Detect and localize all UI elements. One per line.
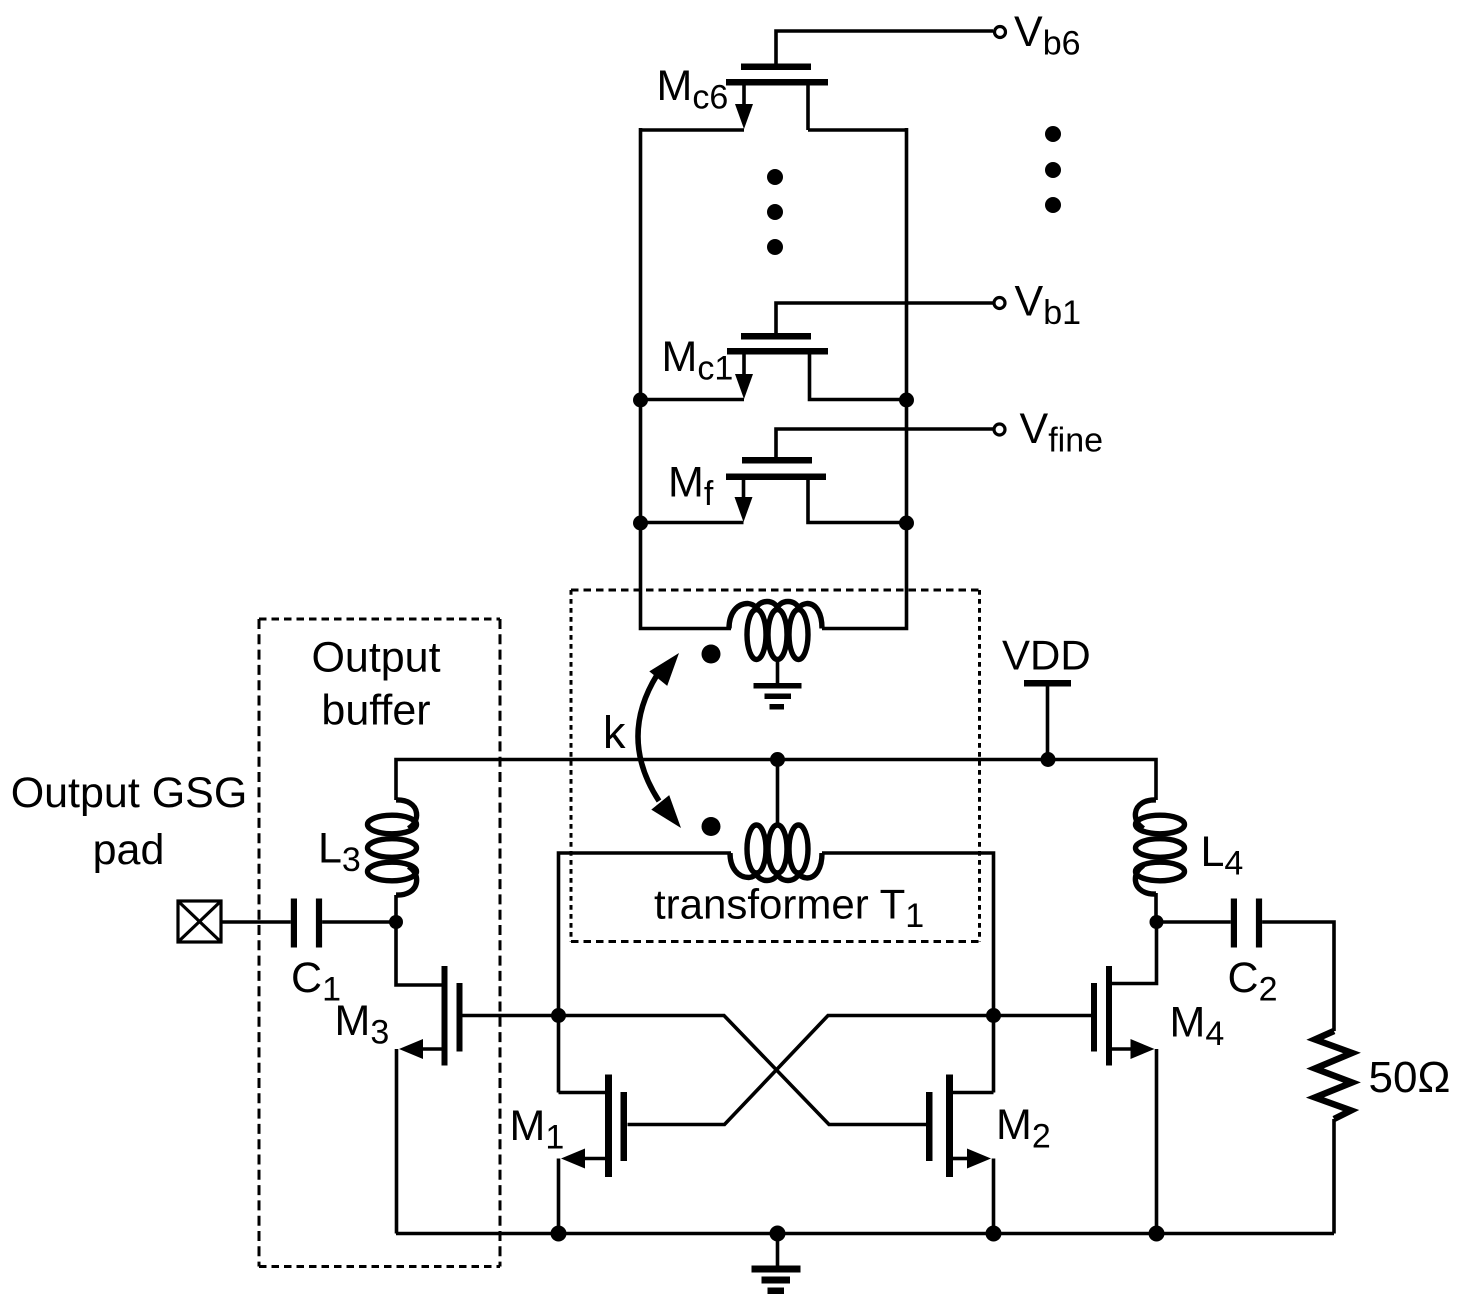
wire left rail to Mf source [641,521,744,525]
transformer T1 dashed box [571,590,980,942]
svg-text:k: k [603,707,626,758]
svg-text:Output: Output [311,634,440,682]
transistor M3 gate bar [457,983,463,1052]
transistor M1 gate bar [621,1092,628,1161]
wire cross-coupling right node to M1 gate [628,1016,994,1125]
svg-text:transformer T1: transformer T1 [654,881,924,936]
terminal Vfine circle [994,424,1005,435]
transistor Mc1 gate wire [776,303,993,334]
node rail M1 source [551,1226,567,1242]
wire cross-coupling left node to M2 gate [559,1016,927,1125]
transistor M3 source wire with arrow [421,1047,442,1051]
node L3/C1/M3 junction [389,915,403,929]
transistor M4 channel bar [1106,966,1112,1066]
transistor M4 drain wire to L4 node [1112,922,1157,984]
transistor Mc1 source lead with arrow [742,354,746,377]
transistor M1 source wire with arrow [583,1157,612,1161]
wire tank left: secondary to M1 drain [559,853,732,1093]
wire secondary centre tap [776,760,780,827]
transistor Mf gate wire [776,429,993,458]
wire node to C2 [1157,920,1231,924]
wire primary centre tap to ground [776,660,780,686]
transformer T1 secondary winding [730,825,822,881]
inductor L4 [1135,800,1184,894]
node tank right [986,1008,1001,1023]
transistor Mc1 gate bar [741,333,811,340]
capacitor C1 [291,899,297,948]
svg-text:pad: pad [93,826,165,874]
transistor M3 channel bar [442,966,448,1066]
wire L4 bottom to node [1154,893,1158,922]
transformer T1 primary winding [729,602,822,660]
node primary polarity dot [702,645,721,664]
coupling arrow k [638,675,659,801]
wire left rail to Mc1 source [641,398,745,402]
transistor Mc6 gate wire [776,31,993,66]
wire VDD rail [396,760,1156,801]
node Mc1 right junction [899,393,914,408]
VDD supply symbol [1024,680,1071,687]
node L4/C2/M4 junction [1150,915,1164,929]
transistor M4 source wire with arrow [1112,1047,1132,1051]
ellipsis dots between Mc6 and Mc1 [767,169,783,255]
transistor Mf source lead with arrow [742,480,746,500]
inductor L3 [368,800,417,895]
resistor 50 ohm [1315,1031,1352,1119]
node rail M4 source [1149,1226,1165,1242]
node Mf left junction [633,516,648,531]
node VDD junction [1041,752,1056,767]
transistor Mc6 drain lead [806,85,810,130]
transistor Mc1 channel bar [727,348,828,355]
svg-text:buffer: buffer [321,687,430,735]
transistor Mf channel bar [726,474,826,481]
ellipsis dots right column [1045,126,1061,213]
transistor M1 channel bar [605,1075,612,1178]
node rail M2 source [986,1226,1002,1242]
node Mf right junction [899,516,914,531]
transistor M3 gate wire to tank left [463,1014,559,1018]
transistor M2 drain wire [953,1091,994,1095]
terminal Vb1 circle [994,298,1005,309]
svg-text:Output GSG: Output GSG [11,769,248,817]
terminal Vb6 circle [995,27,1006,38]
node Mc1 left junction [633,393,648,408]
transistor M2 source wire with arrow [953,1157,969,1161]
wire L3 bottom through node to M3 drain [396,895,442,985]
wire bottom ground rail [396,1232,1334,1236]
wire C2 to resistor [1262,922,1334,1031]
node VDD rail to secondary centre tap [770,752,785,767]
node secondary polarity dot [702,817,721,836]
ground (bottom rail) [776,1234,780,1267]
wire top-left to Mc6 source [641,128,745,132]
transistor M4 gate bar [1091,983,1097,1052]
transistor M2 gate bar [926,1092,933,1161]
wire Mc6 drain to top-right [808,128,907,132]
node rail centre [770,1226,786,1242]
transistor M4 gate wire to tank right [994,1014,1092,1018]
wire tank right: secondary to M2 drain [822,853,994,1093]
output buffer dashed box [259,619,500,1267]
svg-text:VDD: VDD [1002,632,1091,679]
transistor Mf gate bar [742,457,812,464]
transistor Mc6 source lead with arrow [742,85,746,107]
wire resistor to bottom rail [1332,1119,1336,1234]
transistor M1 drain wire [559,1091,606,1095]
wire C1 to buffer node [322,920,396,924]
transistor Mc6 channel bar [726,79,828,86]
transistor M2 channel bar [946,1075,953,1178]
svg-text:50Ω: 50Ω [1369,1053,1451,1102]
node tank left [551,1008,566,1023]
transistor Mc6 gate bar [741,64,811,71]
transistor Mf drain lead [808,480,907,523]
ground (primary centre tap) [754,683,802,710]
wire right rail down to primary coil [822,128,907,629]
capacitor C2 [1231,899,1237,948]
wire left rail down to primary coil [641,128,732,629]
output GSG pad symbol [178,901,221,942]
wire pad to C1 [221,920,291,924]
transistor Mc1 drain lead [810,354,907,400]
